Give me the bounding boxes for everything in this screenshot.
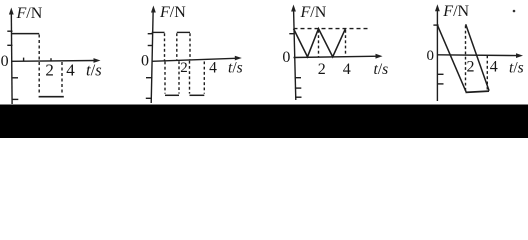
C x-axis arrow [376, 54, 383, 59]
svg-text:2: 2 [180, 60, 188, 76]
A x tick t=1 [23, 58, 25, 62]
D y tick -2 [437, 83, 444, 85]
svg-text:t/s: t/s [374, 61, 389, 78]
C dashed v t=4 [345, 30, 347, 57]
D x-axis arrow [516, 53, 523, 58]
D bottom level [466, 91, 490, 92]
B box2 bottom [190, 94, 205, 96]
A dashed drop t=2 [38, 35, 40, 96]
B y-axis [151, 8, 153, 103]
D dashed v t=2 [465, 26, 467, 92]
B y tick -2 [146, 97, 152, 99]
D y tick F0 [433, 24, 438, 26]
D x-axis [437, 54, 519, 57]
B box1 bottom [165, 94, 179, 96]
C y-axis arrow [291, 5, 296, 12]
B box2 top [177, 31, 190, 33]
svg-text:F/N: F/N [442, 3, 469, 20]
A y tick -1 [12, 77, 18, 79]
black bottom bar [0, 105, 528, 139]
A x-axis [11, 60, 97, 63]
svg-text:4: 4 [66, 61, 75, 80]
svg-text:t/s: t/s [509, 60, 524, 77]
B dashed v t=1 upper [164, 33, 166, 61]
C y tick -2 [295, 87, 301, 89]
D y-axis [436, 7, 438, 101]
B y tick -1 [146, 77, 152, 79]
C y tick F0 [289, 33, 294, 35]
B dashed v t=1 lower [164, 62, 166, 94]
D y-axis arrow [435, 4, 440, 11]
A x-axis arrow [94, 58, 101, 63]
A y tick F0 [7, 30, 12, 32]
C x-axis [294, 56, 380, 57]
svg-text:2: 2 [45, 61, 54, 80]
svg-text:0: 0 [426, 48, 434, 64]
C dashed v t=2 [318, 30, 320, 57]
svg-text:0: 0 [282, 49, 290, 66]
B dashed v t=3 upper [189, 33, 191, 60]
B dashed v t=2 lower [178, 61, 180, 93]
D sawtooth 1 [437, 25, 466, 92]
D dashed v t=4 [486, 56, 488, 92]
svg-text:t/s: t/s [228, 60, 243, 77]
svg-text:F/N: F/N [16, 5, 43, 22]
svg-text:4: 4 [343, 61, 351, 78]
svg-text:0: 0 [141, 52, 149, 69]
C y-axis [294, 7, 296, 100]
B y tick +1 [148, 45, 153, 47]
svg-text:F/N: F/N [300, 4, 327, 21]
B y-axis arrow [151, 6, 156, 13]
A y-axis arrow [9, 8, 14, 15]
B y tick F0 [148, 33, 153, 35]
svg-text:2: 2 [467, 58, 475, 75]
D y tick -1 [437, 73, 444, 75]
svg-text:t/s: t/s [86, 61, 102, 80]
C triangle wave [294, 29, 346, 57]
svg-text:4: 4 [209, 60, 217, 77]
B dashed v t=3 lower [189, 61, 191, 94]
svg-text:2: 2 [318, 61, 326, 78]
B dashed v t=4 lower [203, 62, 205, 94]
A pulse top [11, 33, 39, 35]
C y tick -1 [295, 77, 301, 79]
svg-text:0: 0 [1, 53, 9, 70]
B x-axis [152, 58, 239, 61]
svg-text:F/N: F/N [159, 4, 186, 21]
A x tick t=3 [50, 58, 52, 61]
A pulse bottom [39, 96, 64, 98]
A y tick -2 [12, 98, 18, 100]
B x-axis arrow [235, 56, 242, 61]
C dashed peak line [294, 28, 369, 30]
D speck [513, 10, 516, 13]
A y tick +1 [7, 44, 12, 46]
D sawtooth 2 [466, 24, 489, 91]
B dashed v t=2 upper [176, 33, 178, 60]
C y tick -3 [295, 96, 301, 98]
B box1 top [152, 31, 165, 33]
svg-text:4: 4 [490, 58, 498, 75]
A dashed drop t=4 [61, 62, 63, 95]
A y-axis [10, 10, 13, 104]
